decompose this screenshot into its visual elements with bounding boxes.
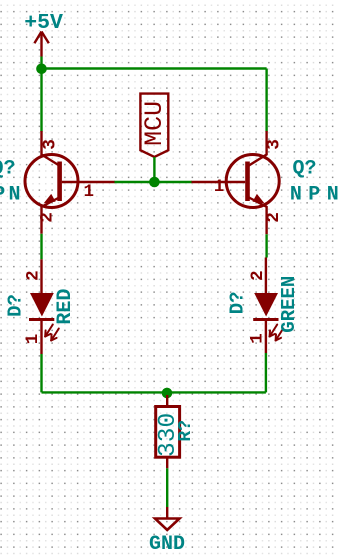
emitter pin lead <box>42 198 60 234</box>
svg-text:2: 2 <box>38 212 58 223</box>
collector pin lead <box>249 131 267 166</box>
base pin lead <box>62 181 115 183</box>
svg-text:Q?: Q? <box>0 158 16 181</box>
emitter arrow <box>44 194 56 204</box>
svg-text:NPN: NPN <box>0 184 24 207</box>
svg-text:+5V: +5V <box>24 11 63 35</box>
svg-text:Q?: Q? <box>293 158 317 181</box>
LED D1 (RED) <box>29 259 59 354</box>
body circle <box>226 155 279 208</box>
power symbol GND <box>155 507 180 530</box>
wire Q1 emitter to D1 <box>40 234 42 259</box>
emission arrows <box>270 325 284 341</box>
svg-text:MCU: MCU <box>140 101 169 146</box>
pin 1 lead <box>166 395 168 407</box>
anode pin lead <box>265 258 267 294</box>
junction top-left <box>36 64 47 75</box>
transistor Q1 (left, NPN) <box>25 131 115 234</box>
gnd triangle <box>155 519 180 531</box>
power symbol +5V <box>34 32 48 57</box>
svg-text:1: 1 <box>214 177 225 197</box>
pin 2 lead <box>166 457 168 468</box>
wire D2 to bottom rail <box>265 353 267 392</box>
svg-text:1: 1 <box>23 334 43 345</box>
base pin lead <box>192 181 246 183</box>
collector pin lead <box>42 131 60 166</box>
emission arrows <box>45 325 59 341</box>
wire D1 to bottom rail <box>40 354 42 392</box>
svg-text:1: 1 <box>248 333 268 344</box>
body circle <box>25 155 78 208</box>
hierarchical label MCU <box>140 94 169 157</box>
svg-text:D?: D? <box>227 291 249 314</box>
anode triangle <box>254 293 278 317</box>
resistor body <box>156 407 180 458</box>
svg-text:D?: D? <box>4 294 26 317</box>
svg-text:3: 3 <box>40 139 60 150</box>
wire +5V stub <box>40 57 42 70</box>
resistor R1 330 <box>156 395 180 468</box>
wire Q2 emitter to D2 <box>265 234 267 257</box>
wire bottom rail <box>42 391 266 393</box>
svg-text:NPN: NPN <box>290 184 338 207</box>
gnd stub <box>166 507 168 519</box>
svg-text:2: 2 <box>23 270 43 281</box>
emitter pin lead <box>249 198 267 235</box>
svg-text:1: 1 <box>84 182 95 202</box>
wire top horizontal <box>42 67 267 69</box>
svg-text:R?: R? <box>176 420 196 442</box>
cathode bar <box>29 318 54 321</box>
emitter arrow <box>253 194 265 204</box>
transistor Q2 (right, NPN) <box>192 131 280 234</box>
svg-text:RED: RED <box>54 289 77 325</box>
junction base <box>149 177 160 188</box>
cathode pin lead <box>265 320 267 354</box>
svg-text:GND: GND <box>149 533 185 556</box>
anode pin lead <box>40 259 42 293</box>
wire MCU stub <box>153 157 155 182</box>
svg-text:2: 2 <box>264 212 284 223</box>
wire base bus <box>114 181 192 183</box>
wire left vertical to Q1 collector <box>40 69 42 132</box>
base bar <box>245 162 250 202</box>
cathode bar <box>253 318 278 321</box>
LED D2 (GREEN) <box>253 258 283 354</box>
base bar <box>57 162 62 202</box>
wire right vertical to Q2 collector <box>265 69 267 132</box>
svg-text:3: 3 <box>264 139 284 150</box>
cathode pin lead <box>40 320 42 355</box>
junction bottom rail <box>162 388 173 399</box>
wire R1 to GND <box>166 468 168 507</box>
svg-text:2: 2 <box>248 270 268 281</box>
svg-text:GREEN: GREEN <box>278 276 300 333</box>
anode triangle <box>30 293 54 317</box>
